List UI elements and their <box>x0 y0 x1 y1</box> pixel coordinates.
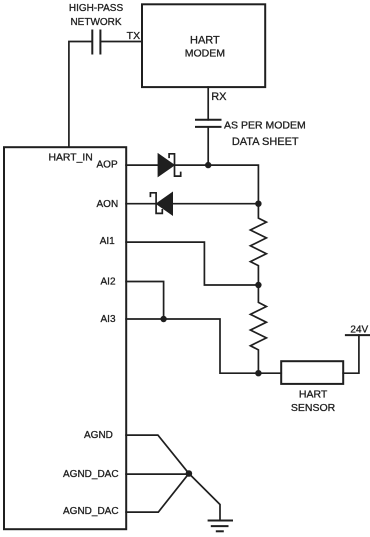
HART sensor box <box>281 361 343 384</box>
svg-text:HART: HART <box>299 388 328 400</box>
svg-text:24V: 24V <box>350 325 368 336</box>
junction node AGND star <box>186 470 193 477</box>
svg-text:NETWORK: NETWORK <box>70 17 121 28</box>
wire RX <box>207 87 209 120</box>
svg-text:AGND_DAC: AGND_DAC <box>63 506 119 517</box>
diode D1 schottky <box>158 154 181 177</box>
svg-text:HART: HART <box>190 35 220 47</box>
svg-text:TX: TX <box>127 30 140 42</box>
wire sensor to 24V <box>343 335 359 373</box>
svg-text:AOP: AOP <box>97 160 118 171</box>
junction node AI2/AI3 <box>160 316 166 322</box>
wire AOP diode to junction <box>175 164 209 166</box>
junction node RX/AOP <box>205 162 211 168</box>
wire TX <box>101 41 142 43</box>
svg-text:AGND: AGND <box>84 430 113 441</box>
svg-text:HART_IN: HART_IN <box>49 153 93 164</box>
label HART SENSOR <box>291 388 336 414</box>
wire RX cap to junction <box>207 127 209 165</box>
svg-text:AI2: AI2 <box>101 277 116 288</box>
svg-text:AI3: AI3 <box>101 314 116 325</box>
wire AGND_DAC <box>126 473 189 475</box>
wire AGND_DAC 2 <box>126 474 189 513</box>
wire AGND <box>126 435 189 473</box>
capacitor C2 RX coupling <box>196 120 221 127</box>
wire HART_IN vertical <box>69 42 92 148</box>
wire AOP <box>126 164 158 166</box>
wire AON <box>126 203 156 205</box>
diode D2 schottky <box>150 192 172 215</box>
resistor R1 <box>250 204 266 285</box>
svg-text:AI1: AI1 <box>100 236 115 247</box>
svg-text:DATA SHEET: DATA SHEET <box>232 136 299 148</box>
label HIGH-PASS NETWORK <box>69 3 124 28</box>
wire AI1 <box>126 242 258 285</box>
wire star to ground <box>189 474 220 521</box>
wire AOP junction to R1 top <box>208 165 258 204</box>
svg-text:HIGH-PASS: HIGH-PASS <box>69 3 124 14</box>
AFE big box <box>4 147 126 529</box>
resistor R2 <box>250 285 266 373</box>
svg-text:MODEM: MODEM <box>185 47 225 59</box>
svg-text:AGND_DAC: AGND_DAC <box>63 469 119 480</box>
wire AI3 <box>126 319 281 373</box>
24V supply bar <box>346 334 370 336</box>
wire AON diode to junction <box>173 203 259 205</box>
svg-text:RX: RX <box>211 91 227 103</box>
svg-text:SENSOR: SENSOR <box>291 402 336 414</box>
svg-text:AS PER MODEM: AS PER MODEM <box>224 120 306 132</box>
junction node R2/sensor <box>255 370 261 376</box>
label AS PER MODEM DATA SHEET <box>224 120 306 148</box>
wire AI2 <box>126 282 164 320</box>
svg-text:AON: AON <box>97 199 119 210</box>
label HART MODEM <box>185 35 225 60</box>
ground symbol <box>209 521 232 532</box>
junction node R1/R2/AI1 <box>255 282 261 288</box>
HART modem box <box>142 4 265 87</box>
junction node AON/R1 <box>255 201 261 207</box>
capacitor C1 high-pass <box>92 31 100 54</box>
